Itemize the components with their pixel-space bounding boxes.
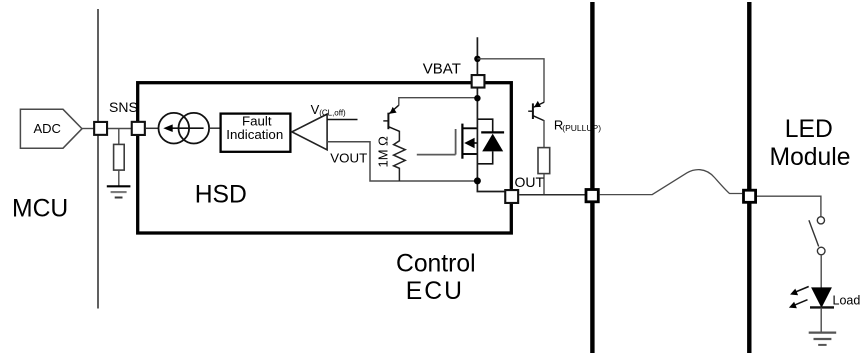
right bus node square bbox=[744, 190, 756, 202]
SNS pin square bbox=[132, 122, 145, 135]
svg-text:Load: Load bbox=[833, 293, 861, 307]
junction dot source rail bbox=[474, 177, 481, 184]
MOSFET M1 channel bbox=[462, 124, 477, 159]
label LED Module bbox=[770, 116, 851, 171]
wire to pullup branch bbox=[477, 59, 544, 103]
wire collector to resistor bbox=[543, 120, 545, 148]
HSD box bbox=[138, 83, 512, 233]
body diode D1 bbox=[478, 119, 505, 164]
current source CS1 bbox=[159, 113, 210, 144]
svg-text:SNS: SNS bbox=[109, 99, 138, 115]
wire SNS pin to current source bbox=[146, 127, 159, 129]
junction dot below VBAT bbox=[474, 95, 480, 101]
right bus bar bbox=[747, 2, 751, 353]
resistor R pullup bbox=[538, 148, 550, 174]
label Control ECU bbox=[396, 251, 476, 306]
svg-text:LED: LED bbox=[785, 116, 833, 143]
svg-text:VOUT: VOUT bbox=[330, 151, 367, 166]
svg-text:Control: Control bbox=[396, 251, 476, 278]
sense resistor bbox=[114, 144, 125, 170]
svg-text:(PULLUP): (PULLUP) bbox=[562, 123, 601, 133]
wire resistor to ground bbox=[118, 170, 120, 186]
svg-text:ADC: ADC bbox=[34, 121, 61, 136]
fault indication block bbox=[221, 114, 291, 152]
pullup transistor Q2 (PNP) bbox=[528, 101, 544, 121]
reference input line bbox=[327, 119, 357, 121]
wire clamp emitter to VBAT net bbox=[399, 98, 478, 106]
OUT pin square bbox=[505, 190, 518, 203]
ADC block bbox=[20, 109, 82, 148]
hop wire bbox=[600, 170, 743, 195]
svg-text:OUT: OUT bbox=[515, 174, 545, 190]
wire LED to ground bbox=[820, 307, 822, 332]
label R(PULLUP) bbox=[554, 118, 601, 133]
VBAT vertical line bbox=[476, 37, 478, 191]
svg-text:(CL,off): (CL,off) bbox=[319, 108, 346, 117]
wire node to SNS pin bbox=[100, 128, 138, 130]
left bus bar bbox=[590, 2, 594, 353]
svg-text:VBAT: VBAT bbox=[423, 60, 461, 77]
svg-text:HSD: HSD bbox=[195, 182, 247, 209]
MOSFET gate bbox=[417, 129, 456, 155]
svg-text:Module: Module bbox=[770, 144, 851, 171]
svg-text:ECU: ECU bbox=[406, 278, 464, 305]
wire ADC tip to node bbox=[82, 128, 94, 130]
switch S1 bbox=[809, 217, 825, 255]
left bus node square bbox=[586, 190, 598, 202]
junction dot VBAT top bbox=[474, 56, 480, 62]
clamp transistor Q1 (PNP) bbox=[383, 105, 399, 131]
svg-text:Indication: Indication bbox=[226, 127, 283, 142]
MCU boundary line bbox=[97, 9, 99, 309]
wire to sense resistor bbox=[118, 129, 120, 145]
LED D2 bbox=[789, 287, 834, 309]
comparator triangle bbox=[292, 114, 327, 150]
ground (load) bbox=[809, 333, 837, 345]
wire current source to fault block bbox=[209, 127, 220, 129]
node square on MCU boundary bbox=[94, 122, 107, 135]
svg-text:MCU: MCU bbox=[12, 196, 68, 223]
label V(CL,off) bbox=[311, 102, 346, 117]
VBAT pin square bbox=[472, 75, 485, 88]
wire to OUT pin bbox=[477, 190, 505, 193]
wire switch to LED bbox=[820, 255, 822, 288]
wire resistor to OUT rail bbox=[543, 174, 545, 195]
resistor 1M zigzag bbox=[394, 131, 406, 181]
wire VOUT net bbox=[327, 142, 477, 181]
wire OUT to left bus bbox=[519, 194, 585, 196]
svg-text:1M Ω: 1M Ω bbox=[376, 136, 391, 168]
ground (MCU side) bbox=[107, 186, 131, 197]
wire right bus to switch bbox=[757, 196, 821, 216]
